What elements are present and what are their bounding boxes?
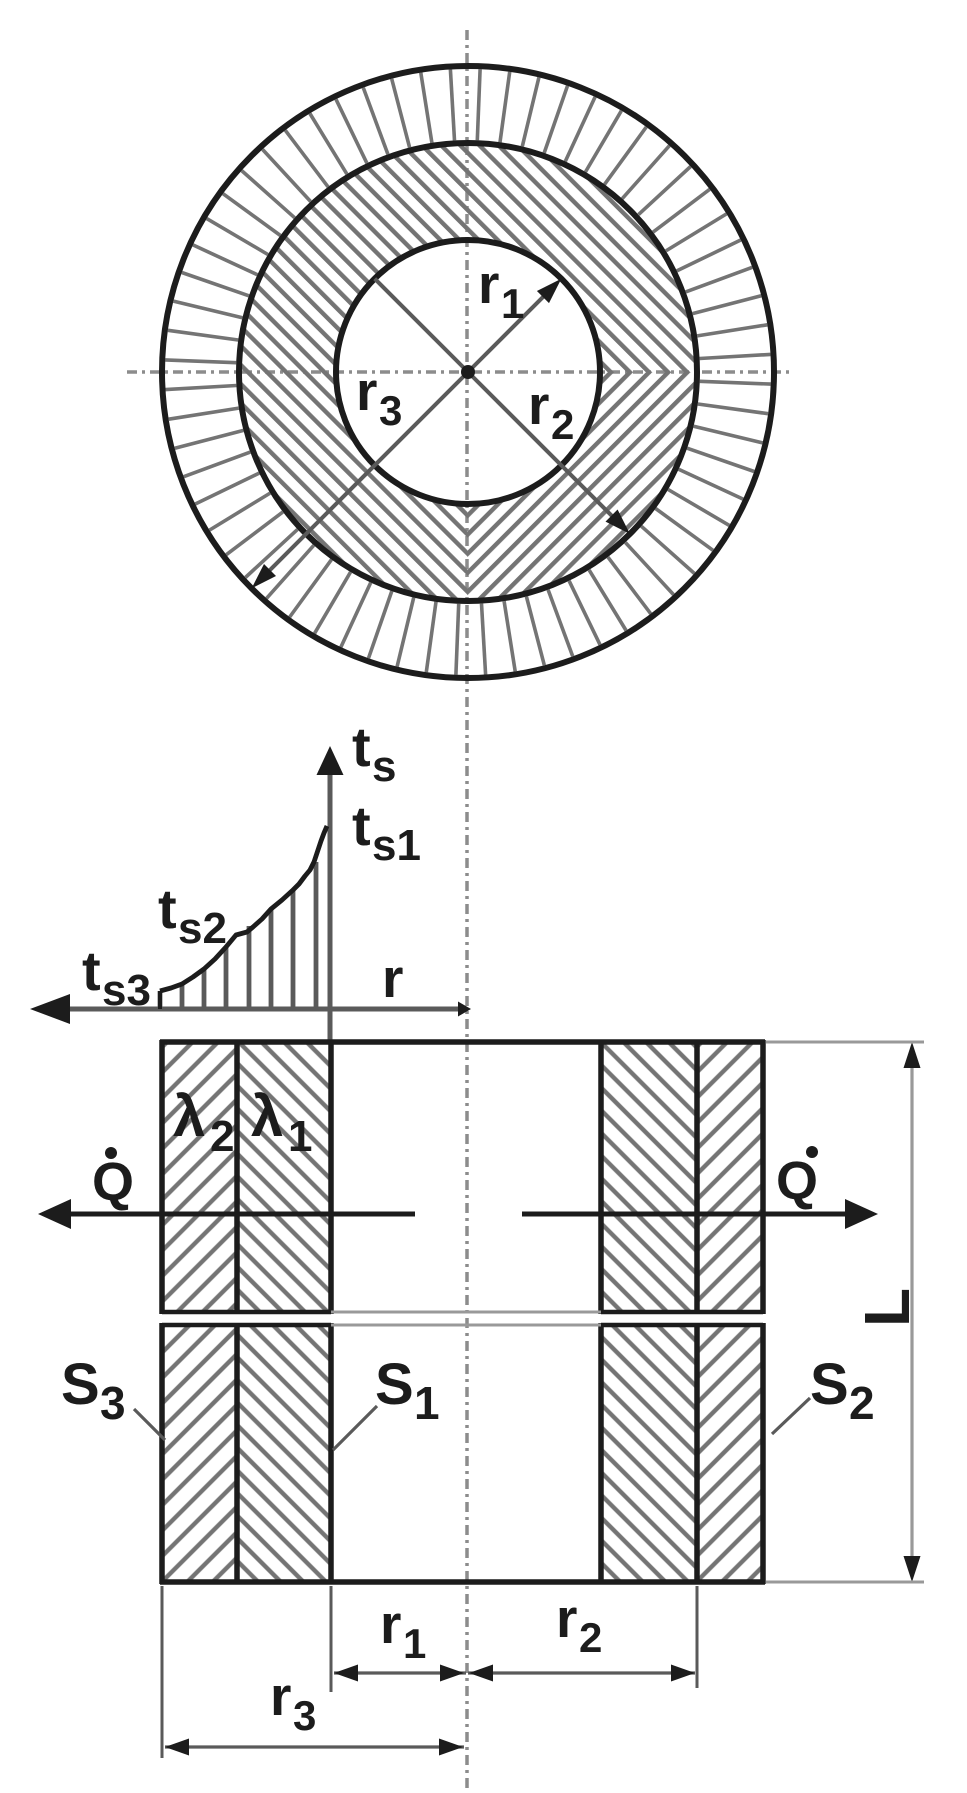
svg-text:r: r <box>382 947 403 1009</box>
svg-text:r: r <box>556 1587 577 1649</box>
svg-text:S: S <box>375 1352 414 1417</box>
svg-text:3: 3 <box>293 1692 316 1739</box>
svg-text:Q: Q <box>92 1152 134 1212</box>
svg-text:3: 3 <box>379 387 402 434</box>
svg-text:t: t <box>158 877 177 940</box>
svg-text:λ: λ <box>173 1084 205 1149</box>
svg-text:2: 2 <box>551 401 574 448</box>
svg-text:3: 3 <box>100 1377 126 1429</box>
svg-text:λ: λ <box>251 1084 283 1149</box>
svg-text:r: r <box>270 1665 291 1727</box>
svg-text:2: 2 <box>210 1112 234 1161</box>
svg-text:s3: s3 <box>102 966 151 1015</box>
svg-text:S: S <box>61 1352 100 1417</box>
svg-text:r: r <box>478 253 499 315</box>
svg-text:t: t <box>82 939 101 1002</box>
svg-text:1: 1 <box>403 1620 426 1667</box>
svg-text:Q: Q <box>776 1151 818 1211</box>
svg-text:1: 1 <box>414 1377 440 1429</box>
svg-text:r: r <box>356 360 377 422</box>
svg-text:r: r <box>380 1593 401 1655</box>
svg-text:1: 1 <box>288 1112 312 1161</box>
svg-text:s: s <box>372 742 396 791</box>
svg-text:S: S <box>810 1352 849 1417</box>
svg-text:L: L <box>851 1288 923 1327</box>
svg-text:2: 2 <box>579 1614 602 1661</box>
svg-text:t: t <box>352 715 371 778</box>
svg-text:s1: s1 <box>372 821 421 870</box>
svg-text:1: 1 <box>501 280 524 327</box>
svg-text:2: 2 <box>849 1377 875 1429</box>
svg-text:t: t <box>352 794 371 857</box>
svg-text:r: r <box>528 374 549 436</box>
svg-text:s2: s2 <box>178 904 227 953</box>
